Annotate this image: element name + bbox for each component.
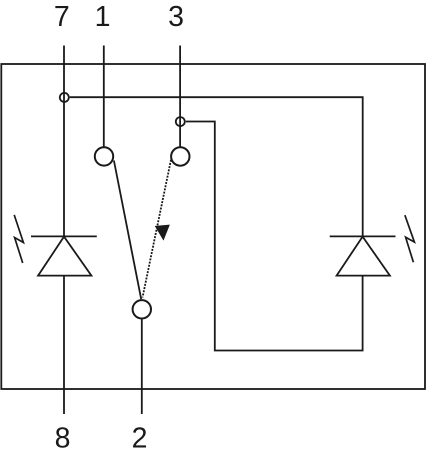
svg-text:7: 7 [54,1,70,33]
svg-text:3: 3 [168,1,184,33]
svg-text:1: 1 [95,1,111,33]
svg-text:2: 2 [132,423,148,455]
svg-text:8: 8 [55,423,71,455]
